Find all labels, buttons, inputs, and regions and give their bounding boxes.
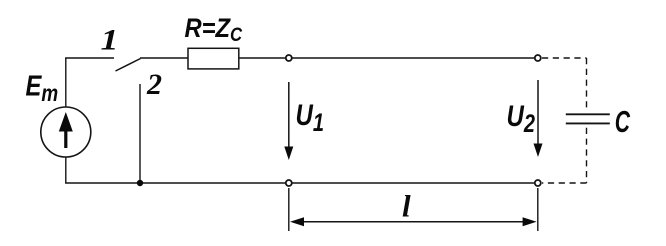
source E_m	[41, 107, 91, 157]
dimension line l	[296, 221, 531, 223]
wire dashed bottom horizontal	[542, 182, 587, 184]
wire node A to node B top line	[292, 57, 534, 59]
junction dot	[137, 180, 143, 186]
resistor R=Zc	[188, 48, 239, 69]
wire top-left to switch contact 1	[65, 57, 114, 59]
node C terminal (bottom left)	[286, 180, 292, 186]
wire bottom rail	[65, 182, 285, 184]
capacitor C plates	[566, 114, 610, 123]
dimension extension line left	[288, 188, 290, 231]
dashed link top	[542, 58, 587, 183]
wire dashed right vertical upper	[586, 58, 588, 112]
wire switch to resistor	[140, 57, 188, 59]
arrow U1	[284, 82, 293, 160]
dimension extension line right	[537, 188, 539, 231]
dimension arrowhead right	[523, 217, 537, 226]
node B terminal	[535, 55, 541, 61]
wire dashed top horizontal	[542, 57, 587, 59]
wire bottom node to node D	[292, 182, 534, 184]
wire 2 vertical	[139, 84, 141, 183]
wire left vertical bottom	[65, 157, 67, 183]
wire resistor to node A	[239, 57, 285, 59]
arrow U2	[534, 80, 543, 157]
node A terminal	[286, 55, 292, 61]
svg-text:C: C	[615, 104, 631, 139]
svg-text:2: 2	[146, 68, 162, 101]
svg-text:1: 1	[101, 23, 119, 56]
node D terminal (bottom right)	[535, 180, 541, 186]
svg-text:l: l	[402, 189, 411, 224]
wire left vertical top	[65, 58, 67, 107]
switch blade	[116, 59, 141, 72]
wire dashed right vertical lower	[586, 128, 588, 183]
source arrow	[59, 112, 73, 148]
dimension arrowhead left	[290, 217, 304, 226]
